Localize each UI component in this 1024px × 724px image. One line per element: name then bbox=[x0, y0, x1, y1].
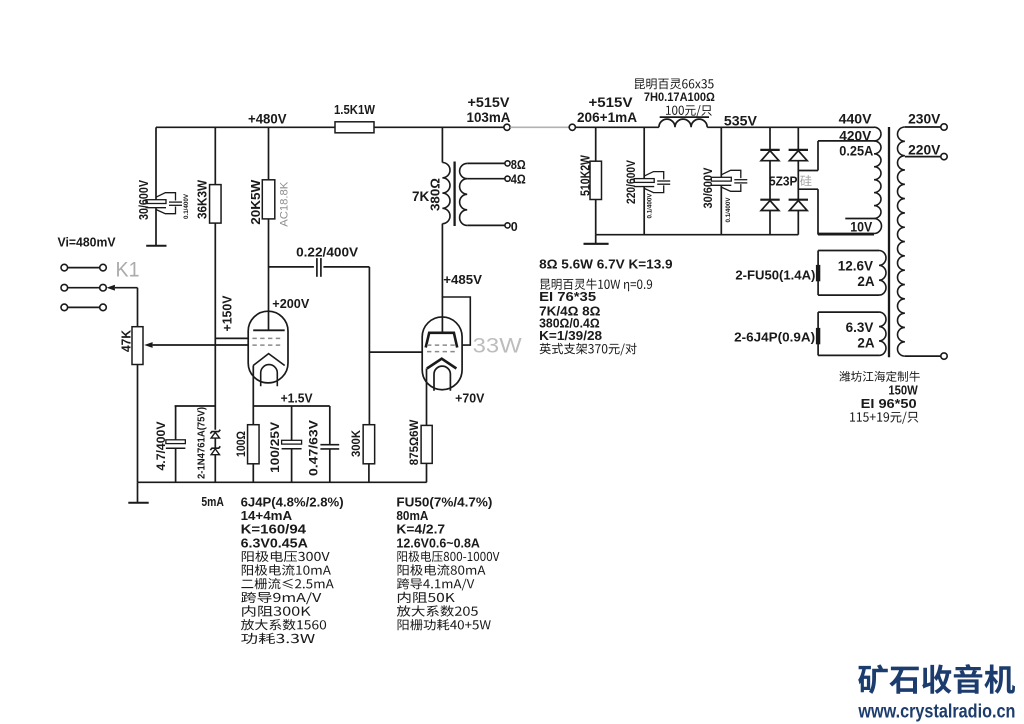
svg-text:12.6V: 12.6V bbox=[838, 259, 873, 274]
svg-text:2A: 2A bbox=[857, 335, 875, 350]
svg-text:103mA: 103mA bbox=[467, 110, 511, 125]
svg-text:10V: 10V bbox=[850, 219, 872, 234]
svg-text:80mA: 80mA bbox=[396, 509, 428, 523]
svg-text:36K3W: 36K3W bbox=[195, 180, 209, 219]
svg-text:0.1/400V: 0.1/400V bbox=[646, 193, 653, 219]
svg-text:2-6J4P(0.9A): 2-6J4P(0.9A) bbox=[734, 331, 815, 345]
svg-text:+200V: +200V bbox=[272, 296, 309, 311]
svg-text:+1.5V: +1.5V bbox=[281, 390, 313, 405]
svg-text:+480V: +480V bbox=[248, 111, 287, 126]
svg-text:100/25V: 100/25V bbox=[268, 422, 282, 473]
svg-text:380Ω: 380Ω bbox=[428, 178, 443, 211]
svg-text:K=160/94: K=160/94 bbox=[241, 523, 306, 537]
svg-text:+515V: +515V bbox=[589, 95, 633, 110]
svg-text:Vi=480mV: Vi=480mV bbox=[58, 235, 116, 250]
svg-text:+485V: +485V bbox=[443, 272, 482, 287]
svg-text:2A: 2A bbox=[857, 274, 875, 289]
svg-text:30/600V: 30/600V bbox=[137, 179, 151, 220]
svg-text:0.1/400V: 0.1/400V bbox=[725, 197, 732, 223]
svg-text:2-FU50(1.4A): 2-FU50(1.4A) bbox=[735, 269, 815, 283]
svg-text:220/600V: 220/600V bbox=[624, 159, 638, 204]
svg-text:300K: 300K bbox=[349, 430, 363, 457]
svg-text:K=4/2.7: K=4/2.7 bbox=[396, 523, 445, 537]
svg-text:0.22/400V: 0.22/400V bbox=[296, 245, 358, 260]
svg-text:30/600V: 30/600V bbox=[701, 167, 715, 209]
svg-text:535V: 535V bbox=[724, 112, 758, 128]
svg-text:4Ω: 4Ω bbox=[511, 172, 526, 186]
svg-text:440V: 440V bbox=[839, 111, 872, 126]
svg-text:AC18.8K: AC18.8K bbox=[278, 181, 290, 226]
svg-text:2-1N4761A(75V): 2-1N4761A(75V) bbox=[197, 407, 208, 479]
svg-text:510K2W: 510K2W bbox=[579, 155, 593, 196]
svg-text:0.1/400V: 0.1/400V bbox=[183, 193, 190, 219]
svg-text:8Ω: 8Ω bbox=[511, 158, 526, 172]
svg-text:4.7/400V: 4.7/400V bbox=[154, 422, 168, 471]
svg-text:0: 0 bbox=[511, 220, 518, 234]
svg-text:220V: 220V bbox=[908, 142, 940, 157]
svg-text:20K5W: 20K5W bbox=[249, 180, 263, 225]
svg-text:14+4mA: 14+4mA bbox=[241, 509, 293, 523]
svg-text:33W: 33W bbox=[473, 334, 522, 357]
svg-text:FU50(7%/4.7%): FU50(7%/4.7%) bbox=[396, 495, 492, 509]
svg-text:6.3V: 6.3V bbox=[846, 320, 874, 335]
svg-text:+515V: +515V bbox=[468, 95, 510, 110]
svg-text:12.6V0.6~0.8A: 12.6V0.6~0.8A bbox=[396, 536, 480, 550]
svg-text:+70V: +70V bbox=[455, 390, 485, 405]
svg-text:206+1mA: 206+1mA bbox=[577, 110, 637, 125]
svg-text:6J4P(4.8%/2.8%): 6J4P(4.8%/2.8%) bbox=[241, 495, 344, 509]
svg-text:875Ω6W: 875Ω6W bbox=[407, 419, 421, 465]
svg-text:K=1/39/28: K=1/39/28 bbox=[539, 329, 602, 343]
svg-text:+150V: +150V bbox=[220, 295, 235, 331]
svg-text:1.5K1W: 1.5K1W bbox=[334, 102, 376, 117]
svg-text:0.25A: 0.25A bbox=[839, 143, 873, 158]
svg-text:K1: K1 bbox=[116, 259, 140, 282]
svg-text:6.3V0.45A: 6.3V0.45A bbox=[241, 536, 308, 550]
svg-text:230V: 230V bbox=[908, 111, 940, 126]
svg-text:EI 96*50: EI 96*50 bbox=[861, 396, 917, 411]
svg-text:8Ω 5.6W 6.7V K=13.9: 8Ω 5.6W 6.7V K=13.9 bbox=[539, 257, 673, 272]
svg-text:0.47/63V: 0.47/63V bbox=[306, 420, 320, 476]
svg-text:100Ω: 100Ω bbox=[234, 431, 248, 457]
svg-text:420V: 420V bbox=[839, 128, 871, 143]
svg-text:5mA: 5mA bbox=[201, 494, 224, 509]
svg-text:5Z3P: 5Z3P bbox=[769, 173, 798, 188]
svg-text:47K: 47K bbox=[119, 330, 133, 352]
svg-text:7H0.17A100Ω: 7H0.17A100Ω bbox=[644, 90, 715, 104]
svg-text:EI 76*35: EI 76*35 bbox=[539, 290, 596, 304]
svg-text:www.crystalradio.cn: www.crystalradio.cn bbox=[858, 702, 1016, 723]
